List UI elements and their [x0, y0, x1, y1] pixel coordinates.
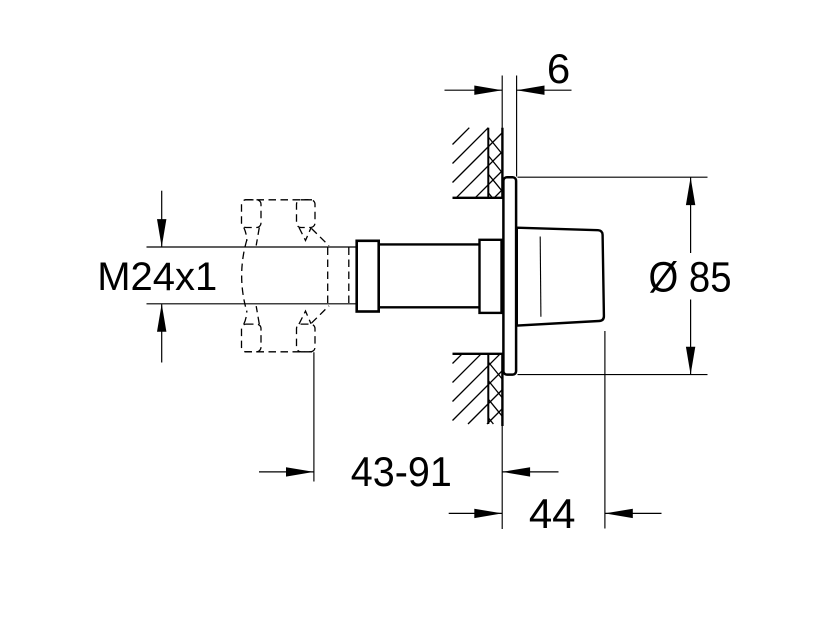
neck hidden edge right: [348, 248, 350, 305]
M24x1 extension line top: [147, 246, 357, 248]
taper under top-left lug: [244, 228, 247, 242]
handle knob: [517, 228, 604, 326]
svg-text:44: 44: [529, 490, 576, 537]
stop collar: [357, 241, 379, 312]
wall bottom finish-layer zigzag hatch: [488, 362, 502, 424]
body top edge: [245, 199, 313, 201]
dim 44: right arrowhead: [605, 509, 633, 518]
wall top finish-layer zigzag hatch: [488, 137, 502, 198]
wall bottom face edge: [501, 353, 503, 426]
dim M24x1: lower arrow shaft: [161, 304, 163, 362]
wall bottom top edge: [453, 353, 504, 355]
dim M24x1: lower arrowhead: [157, 304, 166, 332]
dim 6: right extension line (plate front): [516, 76, 518, 177]
body bottom edge: [245, 351, 313, 353]
svg-text:M24x1: M24x1: [97, 255, 217, 299]
top-right lug: [297, 200, 316, 228]
wall bottom block hatch: [453, 354, 503, 424]
dim 6: left tail line: [445, 89, 503, 91]
svg-text:43-91: 43-91: [351, 448, 452, 495]
dim 43-91: wall face extension line: [501, 426, 503, 529]
dim Ø85: bottom arrowhead: [686, 347, 695, 375]
dim 6: right arrowhead: [517, 86, 545, 95]
taper over bottom-left lug: [244, 311, 247, 325]
wall top block hatch: [453, 128, 503, 198]
chamfer top-right lug to neck: [312, 229, 330, 246]
wall bottom finish line: [487, 354, 489, 424]
dim 44: right tail line: [605, 512, 662, 514]
top-left lug: [242, 200, 262, 228]
dim 6: left arrowhead: [474, 86, 502, 95]
dim Ø85: dimension line upper segment: [690, 177, 692, 253]
wall top bottom edge: [453, 197, 504, 199]
dim 43-91: left tail line: [259, 471, 314, 473]
escutcheon plate: [503, 177, 516, 374]
dim 43-91: right arrowhead: [502, 467, 530, 476]
dim 43-91: right tail line: [502, 471, 558, 473]
knob dome transition line: [539, 237, 542, 317]
wall top finish line: [487, 128, 489, 198]
dim 6: left extension line (wall face): [501, 76, 503, 129]
dim Ø85: dimension line lower segment: [690, 300, 692, 375]
dim Ø85: bottom extension line: [518, 374, 708, 376]
extension tube top edge: [379, 243, 481, 245]
neck hidden edge left: [327, 248, 329, 305]
bottom-right lug: [297, 324, 316, 352]
dim 43-91: left extension line: [313, 352, 315, 481]
chamfer bottom-right lug to neck: [312, 306, 330, 323]
svg-text:Ø 85: Ø 85: [649, 255, 732, 302]
dim 43-91: left arrowhead: [286, 467, 314, 476]
dim 44: left arrowhead: [474, 509, 502, 518]
svg-text:6: 6: [547, 45, 570, 92]
dim 6: right tail line: [517, 89, 572, 91]
dim M24x1: upper arrowhead: [157, 219, 166, 247]
wall top face edge: [501, 128, 503, 199]
dim 44: left tail line: [449, 512, 503, 514]
dim Ø85: top arrowhead: [686, 177, 695, 205]
dim M24x1: upper arrow shaft: [161, 191, 163, 247]
v-notch under top-right lug: [299, 228, 311, 241]
M24x1 extension line bottom: [147, 303, 357, 305]
wall sleeve ring: [480, 240, 502, 313]
dim 44: right extension line (knob front): [604, 331, 606, 529]
body left edge arc: [242, 240, 247, 312]
bottom-left lug: [242, 324, 262, 352]
hidden rough-in valve body (dashed): [242, 200, 349, 352]
extension tube bottom edge: [379, 306, 481, 308]
dim Ø85: top extension line: [518, 176, 708, 178]
v-notch over bottom-right lug: [299, 311, 311, 324]
